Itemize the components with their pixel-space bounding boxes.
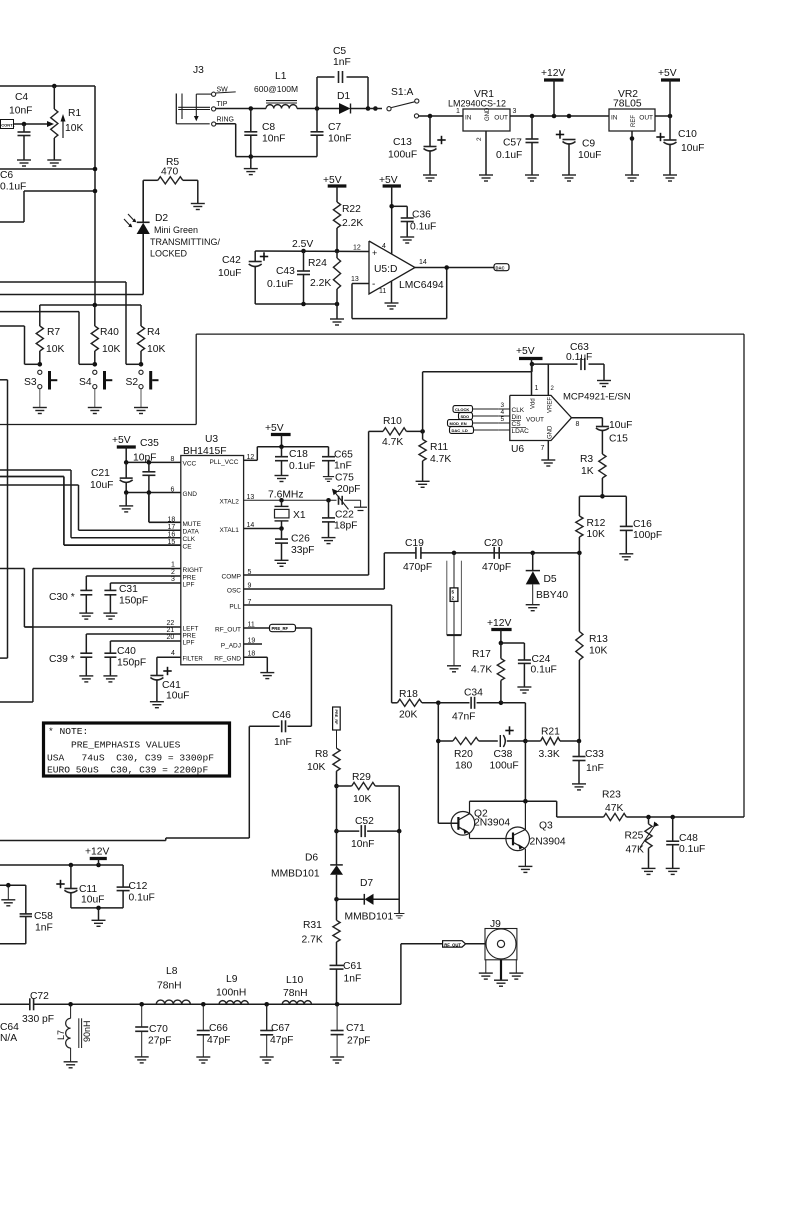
svg-text:0.1uF: 0.1uF [531,665,557,676]
wire U6 VREF pin 2 [548,364,554,395]
svg-text:L1: L1 [275,71,287,82]
node shield column [452,551,457,556]
svg-text:C26: C26 [291,534,310,545]
svg-text:1K: 1K [581,466,594,477]
IC U3 BH1415F body [181,434,244,665]
svg-text:R10: R10 [383,416,402,427]
svg-text:33pF: 33pF [291,545,314,556]
capacitor C6 0.1uF label [0,170,26,193]
wire VCC pin 8 [124,456,197,468]
ground under C13 [423,175,437,181]
svg-text:L8: L8 [166,966,178,977]
svg-text:+5V: +5V [265,423,284,434]
wire RF_OUT pin 11 [215,622,270,634]
svg-text:J9: J9 [490,919,501,930]
svg-text:+5V: +5V [323,175,342,186]
capacitor C10 10uF [656,116,704,175]
svg-text:R23: R23 [602,790,621,801]
svg-text:RF_GND: RF_GND [214,656,241,663]
ground under C18 [275,476,289,482]
resistor R24 2.2K [308,251,341,319]
ground under C57 [525,175,539,181]
svg-text:12: 12 [353,245,361,252]
wire C46 to left edge [0,726,249,840]
capacitor C43 0.1uF [267,249,310,304]
svg-text:10nF: 10nF [351,839,374,850]
svg-text:2.5V: 2.5V [292,239,313,250]
svg-text:0.1uF: 0.1uF [129,893,155,904]
svg-text:8: 8 [171,456,175,463]
resistor R23 47K [602,790,744,821]
svg-text:C52: C52 [355,816,374,827]
capacitor C63 0.1uF [566,342,604,381]
svg-text:18: 18 [168,517,176,524]
wire +5V to C63 [532,363,578,365]
capacitor C26 33pF [275,529,314,561]
node R20 left [436,739,441,744]
svg-text:R1: R1 [68,108,81,119]
svg-text:IN: IN [611,115,618,122]
svg-text:10K: 10K [46,344,64,355]
wire left margin riser [0,380,8,658]
svg-text:6: 6 [171,487,175,494]
wire U6 Vdd pin 1 [532,364,539,395]
svg-text:100uF: 100uF [490,761,519,772]
svg-text:D6: D6 [305,853,318,864]
svg-text:R8: R8 [315,749,328,760]
wire rail to R23 [557,801,604,817]
net label PRE_RF [270,624,296,631]
resistor R12 10K [576,516,606,553]
svg-text:R7: R7 [47,327,60,338]
diode D7 MMBD101 [337,878,400,923]
ground under C70 [135,1057,149,1063]
svg-text:C70: C70 [149,1024,168,1035]
varactor D5 BBY40 [526,553,569,605]
svg-text:470: 470 [161,167,178,178]
svg-text:R22: R22 [342,204,361,215]
ground under R11 [416,481,430,487]
node C48 top [670,815,675,820]
net label MOD_EN [448,420,499,427]
ground after R5 [191,204,205,210]
ground under C71 [330,1057,344,1063]
node R18 C34 junction [436,701,441,706]
svg-text:90nH: 90nH [82,1020,92,1042]
ground under C40 [103,676,117,682]
svg-text:R18: R18 [399,689,418,700]
svg-text:0.1uF: 0.1uF [679,844,705,855]
capacitor C64 N/A label [0,1022,19,1044]
capacitor C34 47nF [438,688,501,723]
regulator VR1 LM2940CS-12 [448,89,517,141]
svg-text:LM2940CS-12: LM2940CS-12 [448,99,506,109]
svg-text:GND: GND [485,107,491,121]
svg-text:+: + [372,248,377,258]
svg-text:1: 1 [535,385,539,392]
svg-text:C65: C65 [334,450,353,461]
svg-text:CLK: CLK [183,536,196,543]
svg-text:+5V: +5V [516,346,535,357]
svg-text:SW: SW [217,87,229,94]
ground under D5 [526,605,540,611]
capacitor C70 27pF [135,1004,171,1057]
svg-text:1nF: 1nF [344,974,362,985]
switch S2 [126,362,159,408]
svg-text:R20: R20 [454,749,473,760]
svg-text:U6: U6 [511,444,524,455]
svg-text:C75: C75 [335,473,354,484]
svg-text:47nF: 47nF [452,712,475,723]
svg-text:R4: R4 [147,327,160,338]
svg-text:R12: R12 [587,518,606,529]
svg-text:C21: C21 [91,468,110,479]
svg-text:10K: 10K [307,762,325,773]
svg-text:X1: X1 [293,510,306,521]
svg-text:USA 74uS C30, C39 = 3300pF: USA 74uS C30, C39 = 3300pF [47,753,214,764]
capacitor C13 100uF [388,116,446,175]
ground J9 center [494,960,508,986]
svg-text:3: 3 [501,402,505,409]
inductor L8 78nH [156,966,190,1004]
node R21 C33 junction [577,739,582,744]
wire U5 output [415,265,494,270]
capacitor C71 27pF [331,1004,371,1057]
capacitor C72 330pF [22,991,54,1025]
svg-text:10uF: 10uF [681,143,704,154]
svg-text:Q3: Q3 [539,821,553,832]
ground under C66 [196,1057,210,1063]
svg-text:MCP4921-E/SN: MCP4921-E/SN [563,392,631,403]
capacitor C66 47pF [197,1004,231,1057]
svg-text:P_ADJ: P_ADJ [221,643,241,650]
svg-text:100pF: 100pF [633,530,662,541]
wire Q collector rail [470,741,557,804]
svg-text:14: 14 [419,259,427,266]
svg-text:1nF: 1nF [35,923,53,934]
svg-text:78nH: 78nH [283,988,308,999]
svg-text:R13: R13 [589,634,608,645]
svg-text:0.1uF: 0.1uF [566,352,592,363]
svg-text:BH1415F: BH1415F [183,446,227,457]
wire CONT1 to wiper [14,122,48,127]
wire PLL_VCC pin 12 [210,444,329,466]
svg-text:C38: C38 [494,749,513,760]
wire +12V rail [510,114,609,119]
wire CE route [0,477,64,546]
net label RF_OUT [443,941,466,948]
capacitor C12 0.1uF [117,865,155,908]
capacitor C16 100pF [620,519,662,554]
svg-text:MUTE: MUTE [183,521,202,528]
wire PRE pin 21 [86,627,196,653]
node 2.5V [292,239,339,253]
svg-text:PRE: PRE [183,633,197,640]
ground under C30 [79,613,93,619]
wire PRE_RF route [288,628,312,726]
svg-text:C13: C13 [393,137,412,148]
ground under C63 [597,381,611,387]
resistor R3 1K [580,454,606,496]
svg-text:11: 11 [248,622,255,629]
shield jumper JP [447,553,462,666]
svg-text:-: - [372,279,375,290]
diode D1 [337,91,368,114]
inductor L1 600@100M [254,71,298,109]
svg-text:PLL_VCC: PLL_VCC [210,459,239,466]
wire DATA route [0,485,79,530]
ground right of MMBD101 [394,914,405,919]
svg-text:C5: C5 [333,46,346,57]
wire PRE pin 2 [86,569,196,590]
wire audio link route [0,569,33,628]
inductor L9 100nH [216,974,248,1004]
svg-text:27pF: 27pF [148,1036,171,1047]
svg-text:2: 2 [171,569,175,576]
power +5V above C18 [265,423,291,447]
svg-text:RF_OUT: RF_OUT [215,627,241,634]
svg-text:S1:A: S1:A [391,87,413,98]
power +12V [541,68,565,116]
diode D6 MMBD101 [271,831,343,899]
svg-text:C71: C71 [346,1023,365,1034]
svg-text:150pF: 150pF [119,596,148,607]
node R25 top [646,815,651,820]
svg-text:20pF: 20pF [337,484,360,495]
svg-text:C35: C35 [140,438,159,449]
ground under C21 [119,493,133,512]
node R8 R29 junction [334,784,339,789]
svg-text:10K: 10K [102,344,120,355]
svg-text:DAC: DAC [496,265,505,270]
svg-text:1: 1 [456,108,460,115]
net label DAC on U5 output [494,264,509,271]
svg-text:D7: D7 [360,878,373,889]
power +5V above U6 [516,346,543,364]
svg-text:1nF: 1nF [274,737,292,748]
svg-text:10uF: 10uF [90,480,113,491]
svg-text:13: 13 [247,494,255,501]
svg-text:600@100M: 600@100M [254,84,298,94]
svg-text:10nF: 10nF [9,106,32,117]
svg-text:RF_OUT: RF_OUT [444,943,461,948]
svg-text:1nF: 1nF [334,461,352,472]
svg-text:10nF: 10nF [328,134,351,145]
svg-text:0.1uF: 0.1uF [0,182,26,193]
svg-text:VOUT: VOUT [526,417,544,424]
node U6 Vdd junction [530,362,535,367]
svg-text:S3: S3 [24,377,37,388]
wire C5 bypass [317,77,368,109]
wire C52 to mute column [336,786,338,831]
resistor R4 10K [137,305,165,364]
svg-text:FILTER: FILTER [183,657,204,663]
svg-text:CLOCK: CLOCK [455,407,469,412]
resistor R10 4.7K [382,416,423,448]
transistor Q2 2N3904 [451,801,510,835]
svg-text:3: 3 [513,108,517,115]
svg-text:CONT1: CONT1 [1,123,15,128]
ground under C24 [517,687,531,693]
capacitor C31 150pF [104,584,148,613]
svg-text:LOCKED: LOCKED [150,249,188,259]
capacitor C35 10pF [133,438,159,493]
svg-text:C58: C58 [34,911,53,922]
svg-text:18pF: 18pF [334,521,357,532]
svg-text:78L05: 78L05 [613,99,642,110]
wire LEFT pin 22 [24,620,198,633]
svg-text:PLL: PLL [229,604,241,611]
svg-text:RIGHT: RIGHT [183,567,203,574]
wire DATA pin 17 [79,524,200,536]
capacitor C40 150pF [104,646,146,676]
svg-text:IN: IN [465,115,472,122]
svg-text:100uF: 100uF [388,150,417,161]
LED D2 Mini Green [124,180,220,294]
svg-text:CLK: CLK [512,407,525,414]
wire R12 C16 tee [579,496,626,526]
svg-text:7.6MHz: 7.6MHz [268,490,303,501]
svg-text:4.7K: 4.7K [430,454,451,465]
net label SDO [459,413,499,420]
svg-text:MMBD101: MMBD101 [345,912,394,923]
capacitor C4 10nF [9,92,32,160]
power +5V above R22 [323,175,346,202]
capacitor C46 1nF [249,710,291,748]
ground under S4 [88,408,102,414]
resistor R20 180 [438,737,498,771]
svg-text:C10: C10 [678,129,697,140]
wire RF_GND pin 18 [214,651,267,673]
capacitor C33 1nF [573,741,605,784]
svg-text:2.2K: 2.2K [310,278,331,289]
capacitor C58 1nF [20,911,54,934]
svg-text:0.1uF: 0.1uF [267,279,293,290]
wire LPF pin 3 [110,576,194,590]
svg-text:47K: 47K [626,845,644,856]
capacitor C39 [49,653,92,676]
svg-text:COMP: COMP [222,574,242,581]
svg-text:13: 13 [351,276,359,283]
capacitor C22 18pF [322,500,357,537]
ground J9 left [479,960,493,979]
ground under U6 [541,460,555,466]
svg-text:47pF: 47pF [207,1035,230,1046]
svg-text:4.7K: 4.7K [382,437,403,448]
svg-text:DATA: DATA [183,529,200,536]
switch S1:A [387,87,419,118]
svg-text:17: 17 [168,524,176,531]
ground under C16 [619,554,633,560]
svg-text:R24: R24 [308,258,327,269]
wire U6 VOUT pin 8 [572,418,603,428]
svg-text:2N3904: 2N3904 [474,818,510,829]
ground under C65 [323,477,334,482]
svg-text:3: 3 [171,576,175,583]
power +5V above C21 [112,435,136,462]
svg-text:OUT: OUT [494,115,508,122]
svg-text:R31: R31 [303,920,322,931]
wire CLK pin 16 [71,532,196,544]
ground under L7 [64,1062,78,1068]
svg-text:C7: C7 [328,122,341,133]
svg-text:CE: CE [183,544,193,551]
svg-text:OSC: OSC [227,588,241,595]
node R10 R11 junction [420,429,425,434]
node C38 R21 junction [523,739,528,744]
svg-text:20K: 20K [399,710,417,721]
svg-text:0.1uF: 0.1uF [289,461,315,472]
ground under shield [447,666,461,672]
wire D2 to left edge [0,294,143,296]
ground under C48 [666,868,680,874]
svg-text:0.1uF: 0.1uF [496,150,522,161]
capacitor C24 0.1uF [501,643,557,687]
wire VR1 gnd pin [485,131,487,175]
wire L1 to D1 [297,106,339,111]
capacitor C30 [49,590,92,613]
DAC U6 MCP4921-E/SN [510,392,631,456]
ground under VR1 [479,175,493,181]
svg-text:10K: 10K [587,529,605,540]
svg-text:PRE_RF: PRE_RF [272,626,289,631]
svg-text:7: 7 [541,445,545,452]
capacitor C7 10nF [311,109,352,157]
wire U6 GND pin 7 [541,441,549,461]
svg-text:18: 18 [248,651,256,658]
svg-text:C67: C67 [271,1023,290,1034]
svg-text:21: 21 [167,627,175,634]
svg-text:10K: 10K [65,123,83,134]
wire C11 C12 bottom [71,906,123,921]
svg-text:2: 2 [476,137,483,141]
resistor R22 2.2K [333,202,363,251]
node R17 top [499,641,504,646]
svg-text:0.1uF: 0.1uF [410,222,436,233]
svg-text:J3: J3 [193,65,204,76]
svg-text:C39 *: C39 * [49,654,75,665]
svg-text:11: 11 [379,288,386,295]
capacitor C19 470pF [403,538,579,573]
wire R10 junction to +5V [423,364,532,431]
svg-text:* NOTE:: * NOTE: [48,726,88,737]
resistor R13 10K [576,551,608,741]
svg-text:PRE: PRE [183,575,197,582]
svg-text:10K: 10K [353,794,371,805]
svg-text:470pF: 470pF [403,562,432,573]
svg-text:5: 5 [248,569,252,576]
ground under C41 [150,702,164,708]
svg-text:C72: C72 [30,991,49,1002]
wire CLK route [0,470,71,538]
capacitor C5 1nF [333,46,351,83]
capacitor C36 0.1uF [392,206,437,237]
svg-text:OUT: OUT [639,115,653,122]
capacitor C42 10uF [218,251,268,304]
wire FILTER pin 4 [157,650,203,676]
svg-text:C22: C22 [335,510,354,521]
wire U5 feedback [352,268,447,319]
svg-text:C46: C46 [272,710,291,721]
svg-text:PRE_RF: PRE_RF [334,710,338,726]
svg-text:C34: C34 [464,688,483,699]
ground under R24 [330,319,344,325]
capacitor C11 10uF [56,865,104,908]
wire 2.5V rail [255,245,369,252]
ground under R25 [642,868,656,874]
net label DAC_LD [450,427,499,434]
wire OSC pin 9 [227,583,384,595]
